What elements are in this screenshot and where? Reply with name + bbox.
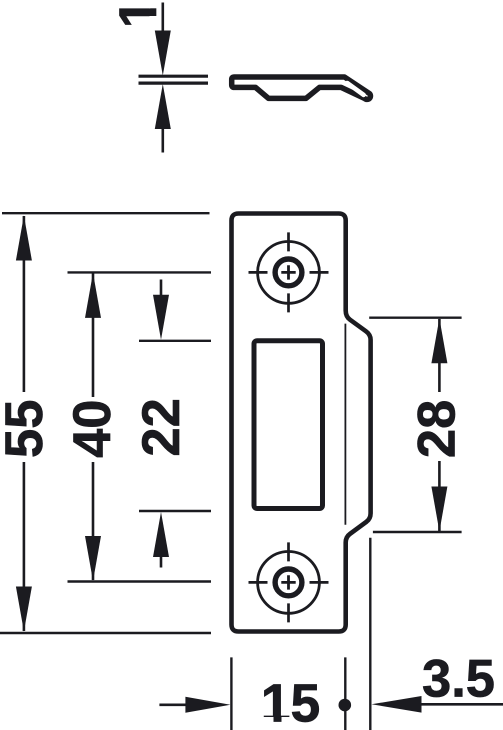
dimension 40 extension line bottom — [68, 580, 212, 582]
dimension 22 leader line top — [160, 280, 163, 297]
dimension 40 line upper segment — [92, 274, 95, 398]
front view plate outline — [232, 214, 371, 632]
erase serif of 1 in 15 (right flank) — [282, 717, 291, 726]
screw hole bottom: outer circle — [258, 552, 320, 614]
dimension 22 leader line bottom — [160, 557, 163, 568]
dimension 55 line lower segment — [23, 462, 26, 631]
svg-text:28: 28 — [408, 400, 467, 458]
dimension 1 extension line lower — [139, 81, 209, 84]
side profile view of strike plate (cross-section) — [232, 77, 371, 99]
dimension 40 arrow down — [85, 536, 101, 581]
dimension 55 extension line top — [2, 212, 210, 214]
dimension 28 extension line top — [369, 317, 461, 319]
dimension 15 dot terminator — [339, 699, 352, 712]
dimension 1 leader line lower — [162, 129, 165, 153]
dimension 22 extension line top — [139, 340, 211, 342]
dimension 3.5 line — [420, 703, 503, 706]
svg-text:40: 40 — [63, 399, 122, 457]
dimension 28 extension line bottom — [373, 531, 462, 533]
screw hole top: outer circle — [258, 242, 320, 304]
dimension 1 leader line upper — [162, 3, 165, 33]
dimension 1 extension line upper — [139, 75, 209, 78]
dimension 40 line lower segment — [92, 462, 95, 580]
dimension 28 arrow up — [431, 318, 447, 363]
dimension 28 line lower segment — [438, 461, 441, 531]
dimension 40 extension line top — [68, 271, 212, 273]
erase serif of 1 (lower flank) — [150, 16, 160, 27]
erase serif of 1 (upper flank) — [150, 0, 160, 8]
dimension 15 extension line left — [230, 657, 232, 730]
erase serif of 1 in 15 (left flank) — [263, 717, 274, 726]
dimension 22 arrow down — [153, 295, 169, 340]
screw hole bottom: center cross — [281, 575, 295, 589]
dimension 28 arrow down — [431, 487, 447, 532]
svg-text:55: 55 — [0, 400, 54, 458]
bend line (thin) — [344, 324, 346, 525]
dimension 28 line upper segment — [438, 319, 441, 392]
dimension 3.5 arrow left — [372, 696, 422, 713]
dimension 55 arrow down — [16, 587, 32, 632]
svg-text:3.5: 3.5 — [422, 650, 495, 709]
screw hole bottom: crosshair arms — [249, 542, 329, 622]
dimension 1 arrow up — [155, 84, 171, 129]
dimension 1 arrow down — [155, 31, 171, 76]
dimension 15 leader line — [159, 703, 186, 706]
dimension 55 arrow up — [16, 216, 32, 261]
dimension 3.5 extension line (lip edge) — [369, 538, 371, 730]
side view lip inner white slot — [347, 83, 363, 95]
dimension 15 arrow right — [185, 697, 230, 713]
dimension 40 arrow up — [85, 273, 101, 318]
dimension 22 extension line bottom — [139, 510, 211, 512]
dimension 55 line upper segment — [23, 216, 26, 392]
screw hole top: crosshair arms — [249, 232, 329, 312]
dimension 22 arrow up — [153, 512, 169, 557]
screw hole top: inner ring — [275, 259, 302, 286]
dimension 15 extension line right — [344, 657, 346, 730]
dimension 55 extension line bottom — [0, 632, 211, 634]
screw hole bottom: inner ring — [275, 569, 302, 596]
latch opening — [254, 341, 323, 509]
svg-text:22: 22 — [132, 398, 191, 456]
screw hole top: center cross — [281, 265, 295, 279]
